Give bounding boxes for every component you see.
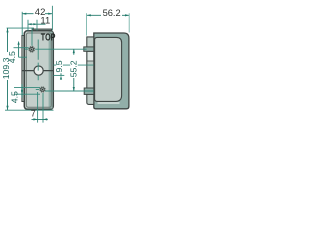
mounting plate (87, 37, 94, 105)
dim ext line 42 right (51, 6, 53, 31)
left rail (22, 36, 25, 102)
dim ext line 11 left (27, 20, 29, 31)
dim line 42 (22, 13, 52, 15)
svg-text:55.2: 55.2 (69, 60, 79, 77)
dim ext line 11 right (36, 20, 38, 31)
plate division lines (87, 47, 94, 94)
top bump strip (33, 29, 52, 34)
dim 4.5 lower ref line a (14, 87, 40, 89)
dim ext line top (109.3 top reference) (7, 27, 34, 29)
right inner band (49, 32, 53, 109)
dim ext line 55.2 bottom (y91.2) (36, 90, 94, 91)
svg-text:9.5: 9.5 (54, 60, 64, 72)
body outer shell (94, 33, 129, 109)
dim ext line 9.5 top (y65) (53, 64, 93, 66)
knurled screw 2 (39, 86, 46, 93)
dim line 11 (28, 23, 46, 25)
background (0, 0, 130, 130)
dim line 56.2 (87, 14, 130, 16)
plate light section (88, 52, 93, 61)
svg-text:11: 11 (40, 16, 50, 27)
dim line 55.2 vertical (73, 49, 75, 91)
dim line 9.5 vertical (60, 73, 62, 75)
dim 4.5 upper ref line a (14, 47, 29, 49)
svg-text:4.5: 4.5 (9, 91, 19, 103)
dim 4.5 upper ref line b (19, 56, 27, 58)
inner frame line (26, 33, 51, 107)
dim ext line bottom (109.3 bottom reference) (5, 109, 54, 111)
dim ext line 56.2 left (86, 13, 88, 35)
inner face panel (95, 37, 122, 101)
big circle (34, 66, 43, 75)
seam line (22, 70, 53, 72)
screw1 vertical centerline (31, 28, 33, 46)
main body rounded rect (24, 31, 53, 110)
dim ext line 9.5 bottom (y75.4) (53, 74, 64, 76)
svg-text:4.5: 4.5 (7, 51, 17, 63)
screw1 centerline to side view (55.2 top reference) (25, 48, 87, 50)
dim 4.5 lower ref line b (14, 93, 40, 95)
tab 2 (84, 88, 94, 94)
dim 4.5 lower: vertical line with diamond arrows (21, 84, 23, 97)
tab 1 (84, 47, 94, 51)
svg-text:TOP: TOP (41, 31, 56, 42)
dim 7 ext line right (42, 93, 44, 123)
dim ext line 42 left (21, 12, 23, 36)
dim line 7 (32, 118, 48, 120)
dim 7 ext line left (37, 92, 39, 123)
svg-text:56.2: 56.2 (103, 8, 121, 18)
dim 4.5 upper: vertical line with up arrow (18, 44, 20, 57)
panel bottom highlight (98, 102, 120, 104)
knurled screw 1 (28, 46, 35, 53)
svg-text:7: 7 (31, 108, 36, 118)
dim line 109.3 vertical (7, 28, 9, 110)
big circle vertical centerline (37, 40, 39, 81)
dim ext line 56.2 right (128, 13, 130, 32)
